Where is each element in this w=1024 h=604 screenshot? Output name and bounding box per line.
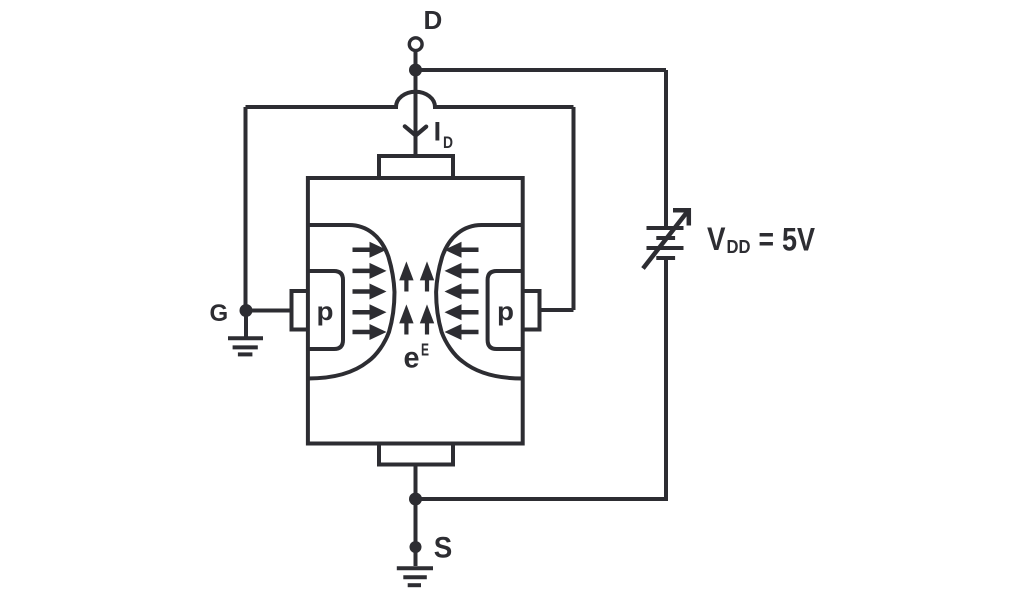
field arrows right <box>445 242 479 340</box>
junction dot at G <box>240 304 253 317</box>
JFET body rectangle <box>308 178 523 444</box>
battery V1 plate 1 long <box>647 226 684 230</box>
label e^E <box>404 340 430 375</box>
wire: gate loop top horizontal with crossover hump <box>246 92 574 107</box>
ground at G bar3 <box>238 352 253 356</box>
ground at S bar1 <box>397 566 433 570</box>
field arrows left <box>353 242 387 340</box>
battery V1 plate 3 long <box>647 246 684 250</box>
wire: D node to battery top <box>416 68 667 72</box>
junction dot at S node <box>409 493 422 506</box>
terminal S dot <box>410 541 422 553</box>
svg-text:E: E <box>421 340 429 360</box>
electron arrows (e field up arrows) <box>399 261 434 334</box>
left gate contact <box>292 291 308 330</box>
svg-text:p: p <box>497 296 514 326</box>
right gate contact <box>523 291 540 330</box>
ground at S bar3 <box>408 583 421 587</box>
label V_DD = 5V <box>707 221 816 258</box>
svg-text:D: D <box>443 133 453 152</box>
wire: drain vertical (terminal to top contact) <box>414 51 418 156</box>
wire: source vertical (bottom contact to ground) <box>414 465 418 567</box>
wire: battery top vertical <box>664 70 668 226</box>
terminal D open circle <box>409 38 422 51</box>
p region right <box>488 271 523 349</box>
battery V1 plate 4 short <box>656 256 675 260</box>
battery variable arrow <box>643 210 689 268</box>
svg-text:p: p <box>317 296 334 326</box>
current arrow I_D <box>405 126 426 135</box>
top contact (drain) <box>379 156 453 178</box>
svg-text:D: D <box>424 5 443 35</box>
svg-text:G: G <box>210 300 229 327</box>
svg-text:e: e <box>404 342 420 375</box>
junction dot at D node <box>409 64 422 77</box>
wire: gate loop left vertical <box>244 107 248 311</box>
wire: stub to right gate contact <box>540 308 574 312</box>
wire: G dot to ground <box>244 311 248 337</box>
bottom contact (source) <box>379 444 453 465</box>
svg-text:I: I <box>434 117 442 147</box>
svg-text:DD: DD <box>727 237 751 257</box>
wire: G to left gate contact <box>246 309 292 313</box>
svg-text:=: = <box>759 221 775 257</box>
svg-text:5V: 5V <box>782 222 816 258</box>
depletion boundary right <box>436 225 523 379</box>
svg-text:S: S <box>434 532 453 565</box>
p region left <box>308 271 343 349</box>
wire: gate loop right vertical <box>572 107 576 310</box>
svg-text:V: V <box>707 221 726 257</box>
label I_D <box>434 117 453 153</box>
wire: battery bottom vertical to S node corner <box>416 260 667 499</box>
battery V1 plate 2 short <box>656 236 675 240</box>
ground at G bar2 <box>233 345 258 349</box>
ground at S bar2 <box>403 575 427 579</box>
ground at G bar1 <box>228 336 263 340</box>
depletion boundary left <box>308 225 395 379</box>
